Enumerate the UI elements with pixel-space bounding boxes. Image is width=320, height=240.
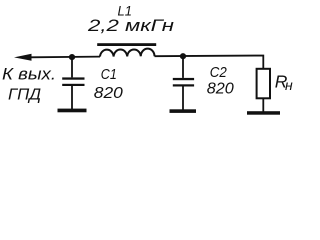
label RН (275, 72, 293, 93)
inductor L1 core bar (97, 43, 156, 46)
wire top rail left segment (30, 56, 100, 59)
inductor L1 coil (100, 49, 155, 57)
svg-text:820: 820 (207, 81, 234, 98)
ground (C1) (58, 109, 87, 113)
ground (C2) (170, 109, 197, 113)
svg-text:820: 820 (94, 85, 123, 102)
svg-text:2,2 мкГн: 2,2 мкГн (87, 17, 174, 35)
svg-text:L1: L1 (118, 3, 133, 18)
ground (RН) (247, 111, 280, 115)
capacitor C1 (62, 57, 84, 109)
node A (junction C1) (69, 54, 75, 60)
svg-text:C1: C1 (101, 66, 117, 83)
wire resistor bottom lead (262, 98, 264, 111)
arrow (output terminal К вых. ГПД) (14, 54, 32, 61)
wire top rail right segment (155, 56, 264, 70)
label К вых. ГПД (2, 66, 56, 104)
svg-text:К вых.: К вых. (2, 66, 56, 84)
capacitor C2 (173, 56, 194, 110)
svg-text:н: н (285, 77, 293, 93)
svg-text:ГПД: ГПД (8, 86, 41, 103)
resistor RН body (257, 69, 270, 99)
svg-text:C2: C2 (210, 64, 228, 81)
node B (junction C2) (180, 53, 186, 59)
